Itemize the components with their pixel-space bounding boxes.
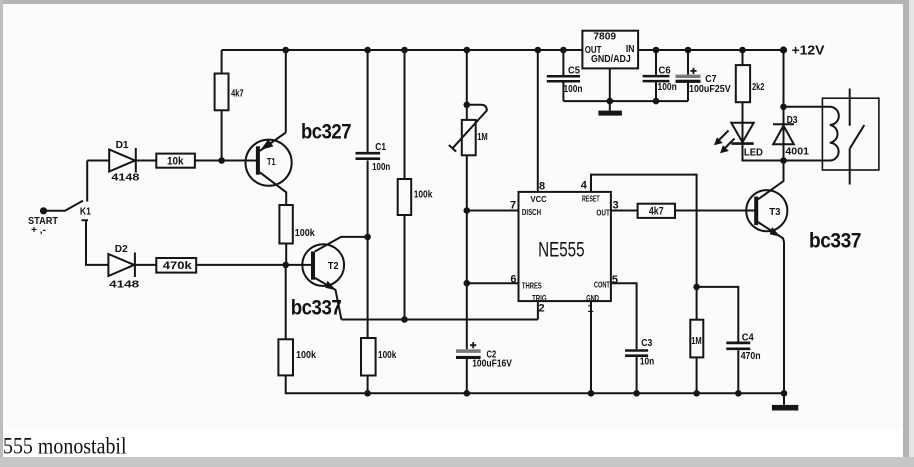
resistor 2k2	[736, 50, 750, 123]
label bc337 T2	[291, 296, 342, 319]
node gnd pin1	[588, 390, 595, 397]
node T1 base	[218, 157, 225, 164]
capacitor C3 plates	[625, 351, 648, 394]
voltage regulator 7809 box	[582, 31, 638, 101]
label 10n	[640, 356, 654, 367]
node rail pin8	[535, 47, 542, 54]
svg-text:C5: C5	[568, 66, 580, 77]
label 4k7 out	[649, 206, 664, 218]
label bc327	[301, 120, 351, 143]
label 470n	[741, 351, 761, 362]
diode D1	[109, 148, 136, 173]
label C1	[375, 142, 386, 153]
svg-text:100k: 100k	[296, 350, 316, 361]
node rail C6	[653, 47, 660, 54]
transistor Q T2 bc337	[302, 237, 367, 320]
svg-text:10n: 10n	[640, 356, 654, 367]
svg-text:C4: C4	[742, 332, 754, 343]
wire TRIG row	[341, 301, 538, 319]
pin 4	[581, 180, 588, 192]
label 7809	[593, 32, 616, 43]
svg-text:4k7: 4k7	[649, 206, 664, 218]
svg-text:+ ,-: + ,-	[31, 225, 46, 236]
relay switch	[850, 89, 865, 185]
node reg gnd a	[607, 98, 614, 105]
label title 555 monostabil	[3, 434, 127, 459]
label C4	[742, 332, 754, 343]
svg-text:100k: 100k	[378, 350, 397, 361]
capacitor C2 plates	[456, 349, 481, 359]
svg-text:bc337: bc337	[291, 296, 342, 319]
svg-text:470k: 470k	[163, 260, 193, 272]
svg-text:THRES: THRES	[522, 280, 542, 290]
svg-text:bc337: bc337	[809, 230, 861, 253]
wire T2 base node down	[285, 265, 287, 339]
svg-text:D2: D2	[115, 244, 128, 255]
wire C4 branch	[697, 287, 739, 393]
label TRIG	[532, 293, 547, 303]
label plus C2	[470, 342, 476, 348]
node rail 100k	[401, 47, 408, 54]
label 100n C5	[564, 84, 583, 95]
label 100uF25V	[689, 84, 731, 95]
label 10k	[167, 155, 184, 167]
LED arrows	[714, 131, 735, 154]
label D2	[115, 244, 128, 255]
wire DISCH stub	[467, 210, 519, 212]
label 2k2	[752, 82, 765, 93]
resistor 10k	[156, 154, 195, 168]
label T2	[328, 261, 339, 272]
wire regulator ground line	[563, 101, 688, 111]
svg-text:4: 4	[581, 180, 588, 192]
node rail 12V	[780, 46, 787, 53]
relay coil	[784, 107, 839, 161]
label 4001	[785, 147, 809, 158]
potentiometer 1M column wire	[466, 50, 468, 393]
label K1	[80, 206, 91, 217]
capacitor C1 column wire	[367, 50, 369, 393]
label OUT 7809	[585, 45, 602, 56]
label OUT ic	[596, 208, 610, 218]
label START	[28, 216, 58, 236]
switch K1	[44, 161, 109, 265]
node rail C1	[364, 47, 371, 54]
svg-text:1M: 1M	[691, 336, 702, 347]
svg-text:2k2: 2k2	[752, 82, 765, 93]
ground regulator	[598, 111, 622, 116]
svg-text:C1: C1	[375, 142, 386, 153]
wire top supply rail right segment	[638, 49, 783, 51]
node gnd 1M	[693, 390, 700, 397]
svg-text:RESET: RESET	[582, 194, 600, 204]
svg-text:+12V: +12V	[792, 43, 825, 58]
node pot top	[464, 102, 471, 109]
label 100k left bottom	[296, 350, 316, 361]
svg-text:4k7: 4k7	[231, 88, 244, 99]
capacitor C4 plates	[726, 343, 750, 349]
svg-text:4001: 4001	[785, 147, 809, 158]
label plus C7	[690, 68, 696, 74]
wire D2 row	[135, 264, 312, 266]
label C6	[659, 66, 672, 77]
op-amp U1 NE555 box	[519, 192, 611, 301]
svg-text:100n: 100n	[372, 162, 390, 173]
label THRES	[522, 280, 542, 290]
node START terminal dot	[40, 207, 47, 214]
label C3	[641, 338, 652, 349]
svg-text:OUT: OUT	[596, 208, 610, 218]
svg-text:DISCH: DISCH	[522, 207, 541, 217]
svg-text:100k: 100k	[295, 228, 315, 239]
svg-text:C3: C3	[641, 338, 652, 349]
svg-text:GND: GND	[586, 293, 599, 303]
pin 3	[613, 200, 619, 212]
resistor 100k T1 collector	[279, 205, 292, 265]
node T2 base	[282, 262, 289, 269]
label C5	[568, 66, 580, 77]
label NE555	[538, 238, 585, 261]
label +12V	[792, 43, 825, 58]
resistor R 4k7 top	[215, 50, 229, 161]
label GND ic	[586, 293, 599, 303]
svg-text:NE555: NE555	[538, 238, 585, 261]
svg-text:100n: 100n	[658, 82, 677, 93]
label GND/ADJ	[591, 54, 631, 65]
label IN 7809	[626, 44, 635, 55]
resistor 100k upper mid	[398, 179, 412, 215]
svg-text:1M: 1M	[477, 132, 488, 143]
label 4k7 top	[231, 88, 244, 99]
resistor 470k	[156, 258, 196, 273]
wire THRES stub	[467, 282, 519, 284]
svg-text:2: 2	[539, 302, 545, 314]
diode D2	[108, 253, 134, 278]
svg-text:100n: 100n	[564, 84, 583, 95]
label 100n C6	[658, 82, 677, 93]
node D3 bottom	[780, 157, 787, 164]
pin 1	[587, 303, 593, 315]
svg-text:555 monostabil: 555 monostabil	[3, 434, 127, 459]
svg-text:100k: 100k	[414, 190, 433, 201]
resistor 100k column wire	[404, 50, 406, 320]
node rail pot	[464, 47, 471, 54]
label D1	[116, 140, 129, 151]
pin 6	[510, 274, 516, 286]
node rail 2k2	[739, 47, 746, 54]
capacitor C7 electrolytic	[676, 50, 701, 101]
svg-text:C6: C6	[659, 66, 672, 77]
transistor Q T1 bc327	[246, 50, 292, 205]
svg-text:GND/ADJ: GND/ADJ	[591, 54, 631, 65]
svg-text:10k: 10k	[167, 155, 184, 167]
svg-text:7: 7	[510, 200, 516, 212]
label CONT	[594, 279, 611, 289]
svg-text:4148: 4148	[109, 280, 140, 291]
pin 7	[510, 200, 516, 212]
pin 8	[539, 180, 545, 192]
label 470k	[163, 260, 193, 272]
svg-text:470n: 470n	[741, 351, 761, 362]
node reg gnd b	[653, 98, 660, 105]
wire ground rail	[286, 375, 784, 393]
label 100k mid bottom	[378, 350, 397, 361]
resistor 100k left bottom	[278, 339, 293, 375]
label bc337 T3	[809, 230, 861, 253]
resistor 4k7 out	[638, 204, 675, 218]
svg-text:100uF16V: 100uF16V	[472, 359, 512, 370]
svg-text:8: 8	[539, 180, 545, 192]
wire top supply rail left segment	[222, 49, 583, 51]
label 100uF16V	[472, 359, 512, 370]
wire pin5 CONT	[611, 283, 637, 349]
svg-text:4148: 4148	[111, 173, 140, 184]
node gnd C1	[364, 390, 371, 397]
svg-text:CONT: CONT	[594, 279, 611, 289]
capacitor C1 plates	[356, 153, 381, 159]
wire pin4 RESET	[591, 175, 697, 320]
label 1M pot	[477, 132, 488, 143]
label 4148 D1	[111, 173, 140, 184]
capacitor C6	[643, 50, 670, 101]
resistor 100k mid bottom	[361, 338, 376, 376]
svg-text:6: 6	[510, 274, 516, 286]
label LED	[744, 147, 763, 158]
node reset 1M	[693, 284, 700, 291]
label RESET	[582, 194, 600, 204]
resistor 1M vertical	[690, 320, 703, 394]
node gnd T3	[781, 390, 788, 397]
label T3	[769, 207, 781, 218]
svg-text:100uF25V: 100uF25V	[689, 84, 731, 95]
svg-text:1: 1	[587, 303, 593, 315]
svg-text:T1: T1	[267, 157, 276, 168]
LED	[731, 123, 783, 161]
svg-text:D1: D1	[116, 140, 129, 151]
svg-text:T3: T3	[769, 207, 781, 218]
svg-text:D3: D3	[787, 115, 798, 126]
svg-text:T2: T2	[328, 261, 339, 272]
svg-text:bc327: bc327	[301, 120, 351, 143]
transistor Q T3 bc337	[746, 161, 787, 394]
node DISCH	[464, 207, 471, 214]
svg-text:TRIG: TRIG	[532, 293, 547, 303]
relay box	[822, 98, 879, 170]
wire pin8 VCC	[537, 50, 539, 192]
node gnd C2	[464, 390, 471, 397]
wire pin3 OUT	[611, 210, 755, 212]
label D3	[787, 115, 798, 126]
label 100k T1	[295, 228, 315, 239]
label 4148 D2	[109, 280, 140, 291]
label VCC	[531, 194, 547, 204]
wire pin1 GND	[590, 301, 592, 393]
svg-text:K1: K1	[80, 206, 91, 217]
svg-text:3: 3	[613, 200, 619, 212]
label 1M vertical	[691, 336, 702, 347]
diode D3	[773, 50, 794, 161]
node T2 collector	[364, 234, 371, 241]
label C7	[705, 74, 717, 85]
wire D1 row	[87, 160, 256, 162]
node D3 top	[780, 104, 787, 111]
node THRES	[464, 280, 471, 287]
node rail C7	[685, 47, 692, 54]
pin 2	[539, 302, 545, 314]
svg-text:7809: 7809	[593, 32, 616, 43]
label T1	[267, 157, 276, 168]
label 100n C1	[372, 162, 390, 173]
potentiometer 1M	[449, 105, 487, 156]
svg-text:5: 5	[612, 274, 618, 286]
node gnd C3	[633, 390, 640, 397]
node TRIG	[401, 316, 408, 323]
label DISCH	[522, 207, 541, 217]
svg-text:LED: LED	[744, 147, 763, 158]
pin 5	[612, 274, 618, 286]
node rail T1	[282, 47, 289, 54]
svg-text:VCC: VCC	[531, 194, 547, 204]
capacitor C5	[547, 50, 580, 101]
label 100k upper mid	[414, 190, 433, 201]
label C2	[487, 350, 497, 361]
node rail C5	[560, 47, 567, 54]
ground main	[772, 393, 798, 410]
node gnd C4	[735, 390, 742, 397]
